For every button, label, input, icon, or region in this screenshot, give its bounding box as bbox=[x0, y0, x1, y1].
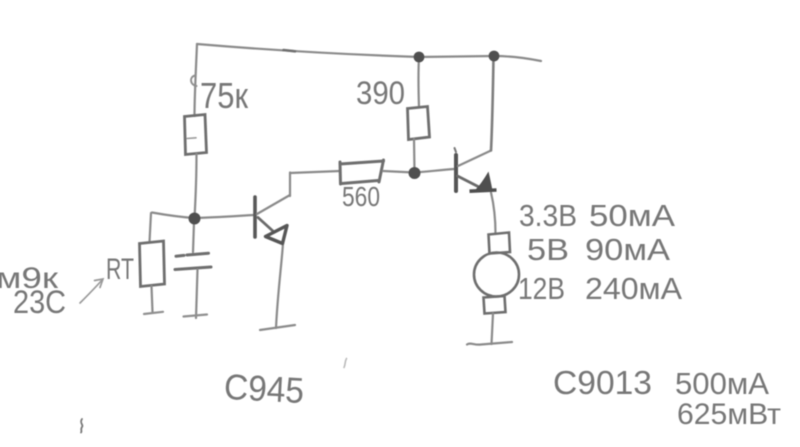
svg-text:50мА: 50мА bbox=[589, 198, 675, 233]
svg-text:RT: RT bbox=[106, 253, 134, 286]
svg-text:С945: С945 bbox=[223, 366, 305, 411]
svg-text:500мА: 500мА bbox=[675, 366, 769, 401]
svg-text:560: 560 bbox=[342, 181, 380, 212]
svg-text:3.3В: 3.3В bbox=[519, 198, 577, 233]
svg-text:240мА: 240мА bbox=[585, 271, 682, 306]
svg-text:5В: 5В bbox=[527, 232, 569, 267]
svg-text:23С: 23С bbox=[13, 284, 66, 320]
svg-text:90мА: 90мА bbox=[585, 232, 670, 267]
svg-text:390: 390 bbox=[356, 75, 405, 111]
svg-text:625мВт: 625мВт bbox=[677, 398, 781, 431]
svg-text:12В: 12В bbox=[518, 271, 565, 306]
svg-text:75к: 75к bbox=[200, 75, 248, 116]
svg-text:С9013: С9013 bbox=[553, 364, 652, 401]
